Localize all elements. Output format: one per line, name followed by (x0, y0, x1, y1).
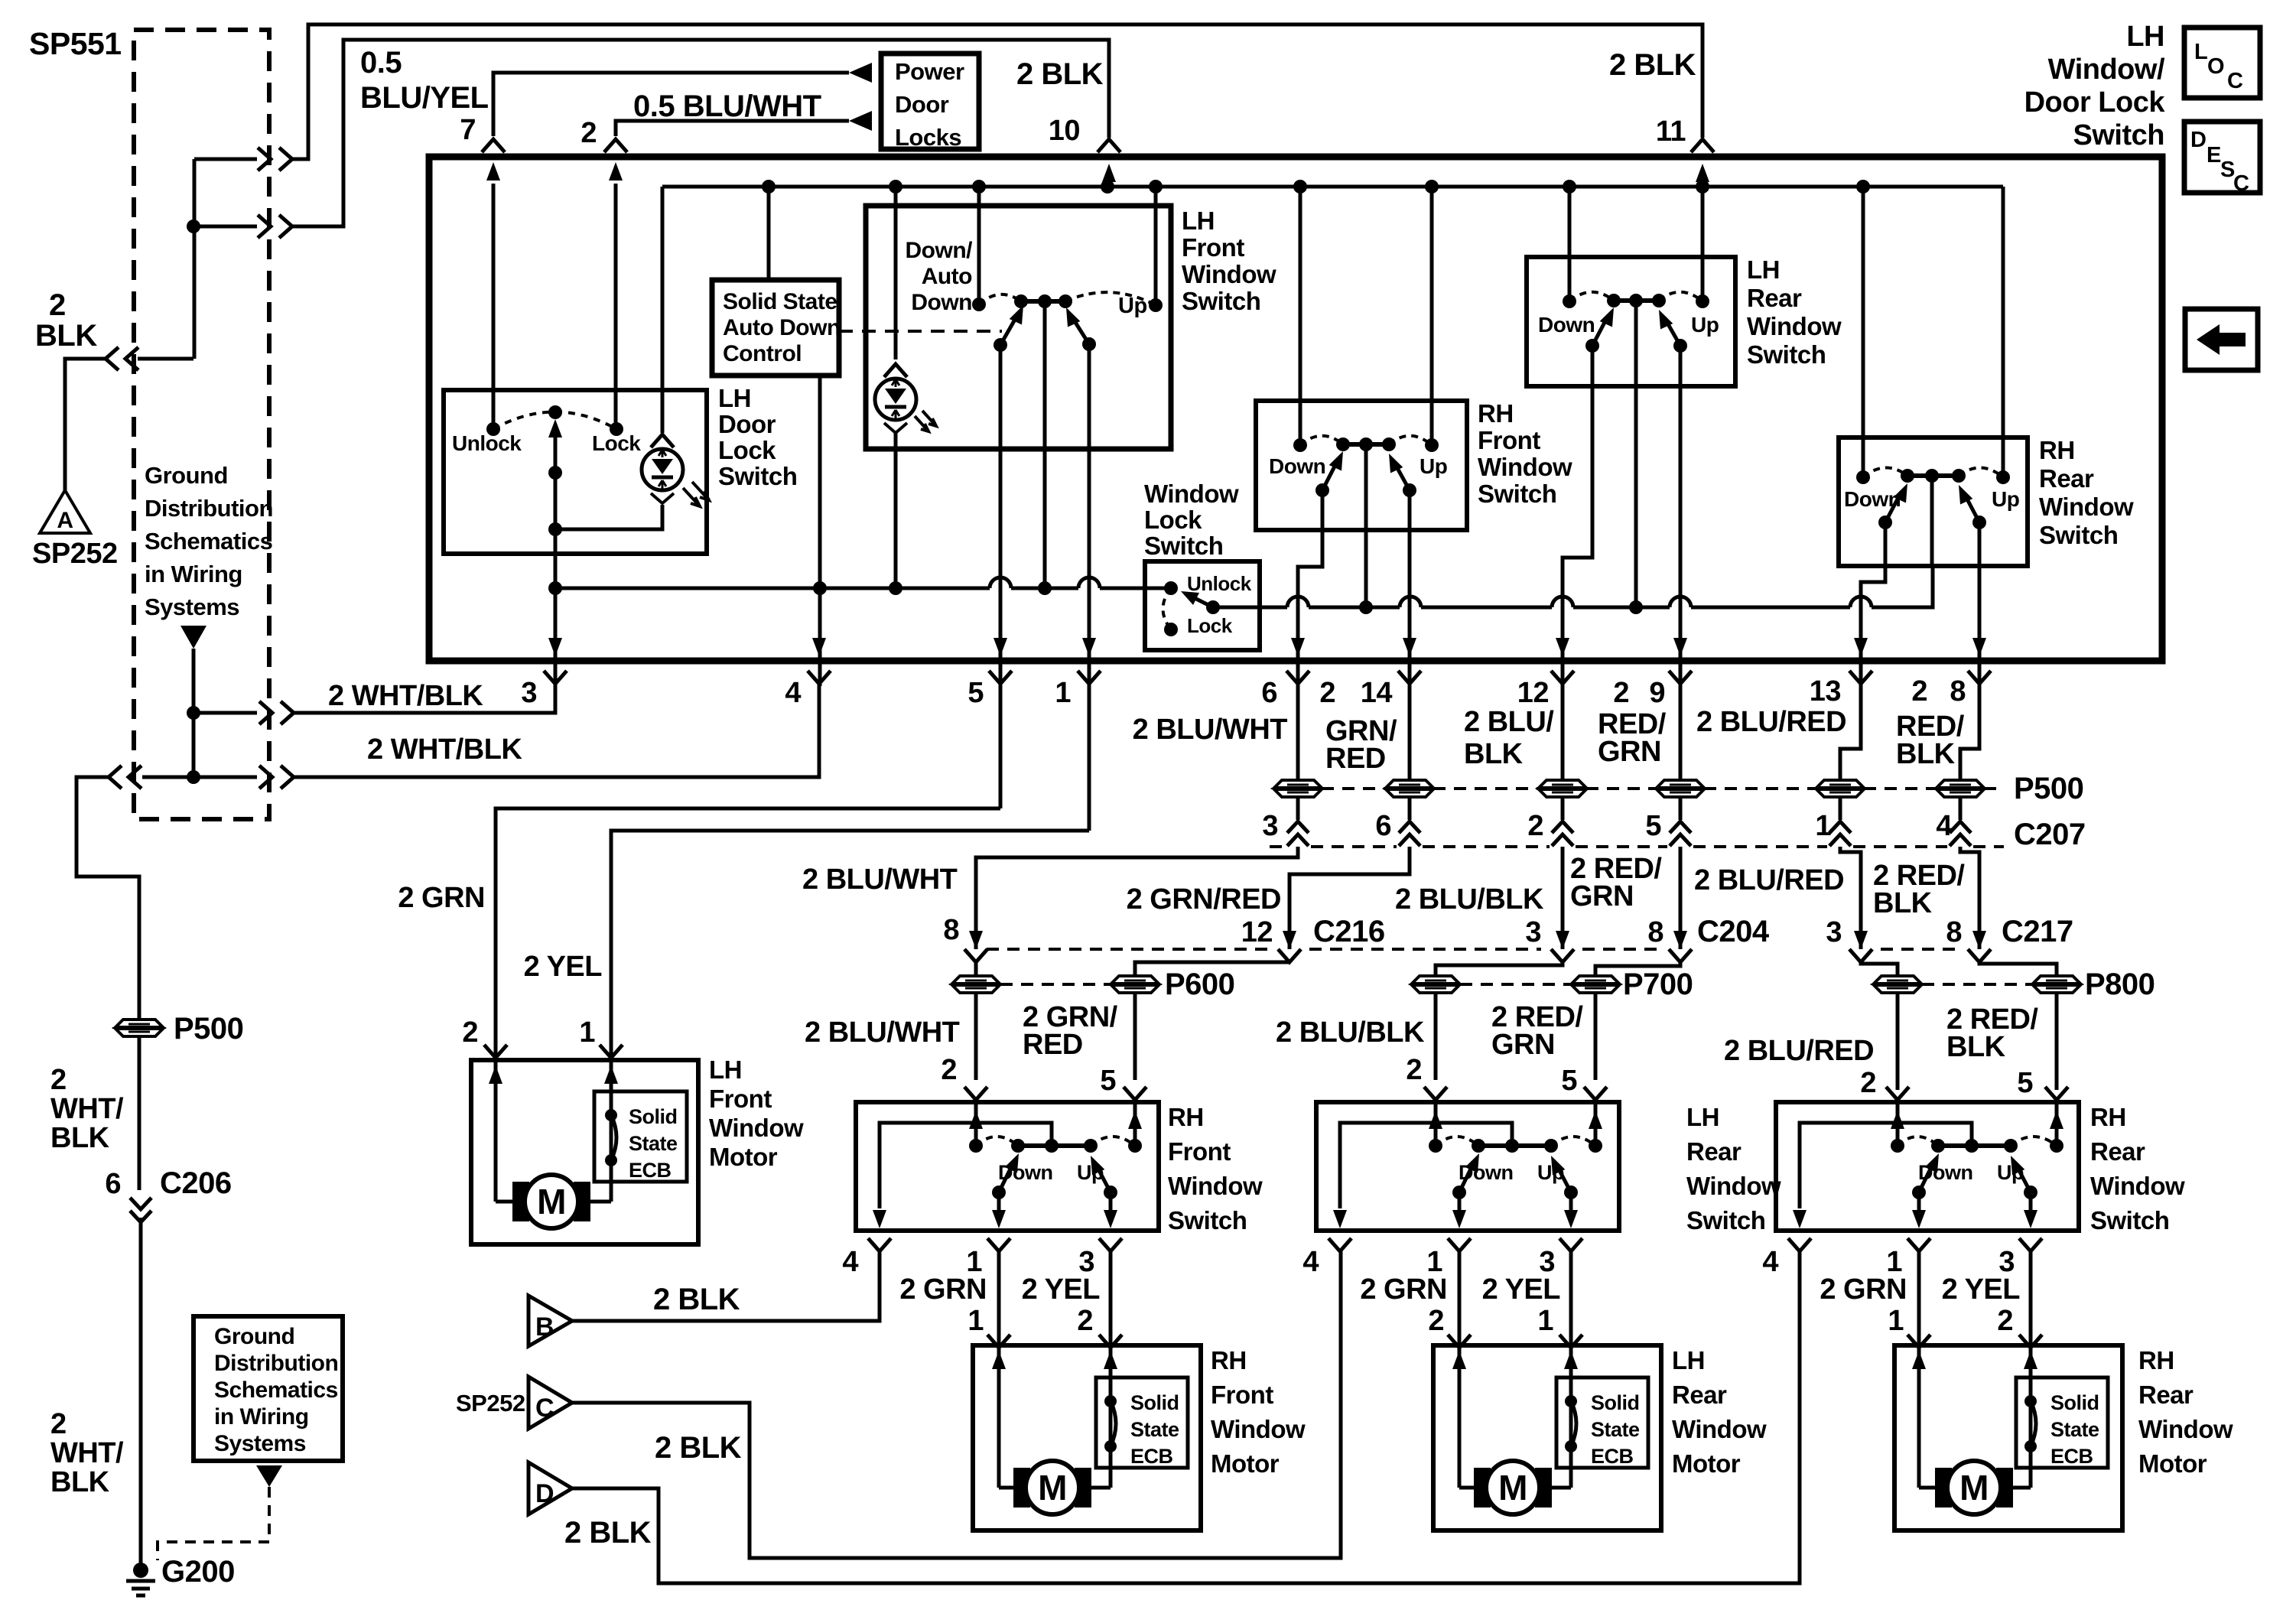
svg-text:2 BLU/BLK: 2 BLU/BLK (1395, 883, 1544, 916)
svg-text:M: M (1498, 1468, 1527, 1508)
dashed arcs rh rear (1863, 467, 1907, 477)
svg-text:Window: Window (1211, 1415, 1306, 1443)
junction dot LED return (548, 522, 562, 536)
junction dot LED wire on lock line (889, 581, 902, 595)
svg-text:2 YEL: 2 YEL (1482, 1273, 1561, 1306)
wire lower left to pin 5 (999, 345, 1003, 684)
lower contact right lh front (1082, 337, 1096, 351)
svg-text:5: 5 (2017, 1067, 2033, 1099)
svg-text:Window: Window (1168, 1172, 1263, 1200)
LH Rear Window Motor internal wires (1458, 1348, 1462, 1488)
svg-text:Rear: Rear (1747, 284, 1802, 312)
svg-text:2: 2 (50, 1064, 67, 1096)
svg-text:Window: Window (1686, 1172, 1781, 1200)
junction dot WHT/BLK row2 (187, 770, 200, 784)
wire rh front center to lock line (1364, 444, 1368, 607)
svg-text:State: State (1130, 1418, 1179, 1441)
svg-text:C216: C216 (1313, 915, 1385, 948)
svg-text:LH: LH (1686, 1103, 1719, 1131)
lever arrow left lh front (1000, 313, 1019, 345)
wire lh front center to lock line (1043, 301, 1047, 588)
svg-text:C: C (535, 1394, 554, 1423)
LH Rear Window Motor ECB box (1556, 1377, 1648, 1468)
svg-text:5: 5 (1100, 1065, 1116, 1097)
svg-text:2 GRN: 2 GRN (398, 882, 485, 914)
contact Up lh rear (1696, 294, 1709, 308)
triangle down feed (180, 626, 207, 649)
pin 11 entry arrow (1701, 184, 1705, 187)
svg-text:Front: Front (1168, 1137, 1231, 1166)
svg-text:SP551: SP551 (29, 26, 122, 61)
box back arrow (2185, 309, 2258, 370)
svg-text:6: 6 (1261, 677, 1277, 709)
pin 7 entry arrow (492, 184, 496, 229)
svg-text:RH: RH (2138, 1346, 2174, 1374)
svg-text:RED: RED (1023, 1029, 1083, 1061)
box LH Rear Window Switch (door) (1316, 1102, 1619, 1231)
svg-text:10: 10 (1049, 115, 1080, 147)
svg-text:GRN: GRN (1598, 736, 1661, 768)
pivot dot (548, 466, 562, 480)
junction dot pin4 wire on lock line (813, 581, 827, 595)
svg-text:Switch: Switch (2039, 521, 2118, 549)
dashed line C207 row (1270, 845, 1285, 848)
svg-text:Solid: Solid (2050, 1391, 2099, 1414)
svg-text:C204: C204 (1697, 915, 1770, 948)
svg-text:2: 2 (49, 288, 66, 322)
RH Rear Window Motor motor (1919, 1486, 1949, 1490)
dashed arc bar to up (1065, 292, 1156, 305)
svg-text:Window: Window (2138, 1415, 2233, 1443)
svg-text:WHT/: WHT/ (50, 1093, 124, 1125)
svg-text:1: 1 (579, 1016, 595, 1049)
svg-text:2 BLU/WHT: 2 BLU/WHT (802, 864, 958, 896)
svg-text:BLU/YEL: BLU/YEL (360, 81, 489, 115)
svg-text:Motor: Motor (709, 1143, 778, 1171)
svg-text:GRN: GRN (1491, 1029, 1555, 1061)
svg-text:Window: Window (1747, 312, 1842, 340)
wire lh rear center to lock line (1634, 301, 1638, 607)
dashed box SP551 (134, 30, 269, 819)
wire C216-8 to P600 lens left (952, 976, 1000, 993)
svg-text:State: State (2050, 1418, 2099, 1441)
switch bar rh rear (1907, 473, 1959, 478)
svg-text:State: State (1591, 1418, 1640, 1441)
dashed arc unlock-lock (493, 412, 616, 430)
svg-text:3: 3 (521, 677, 537, 709)
wire P800 right to RH rear switch pin 5 (2055, 993, 2059, 1090)
wire into unlock contact (1145, 587, 1171, 590)
wire 2 BLK from D to RH rear pin 4 (572, 1251, 1800, 1583)
svg-text:Window: Window (2090, 1172, 2185, 1200)
svg-text:3: 3 (1262, 810, 1278, 842)
junction dot lh rear center (1629, 600, 1643, 614)
wire 2 BLK from C to LH rear pin 4 (572, 1251, 1341, 1558)
svg-text:Down/: Down/ (906, 238, 974, 263)
svg-text:M: M (1959, 1468, 1989, 1508)
wire lower right to pin 1 (1088, 344, 1091, 684)
svg-text:C: C (2227, 69, 2243, 93)
svg-text:Door: Door (718, 410, 776, 438)
door lock LED connector chevrons (651, 434, 674, 447)
wire C216-3 to P700 lens left (1436, 962, 1563, 976)
RH Front Window Motor motor (999, 1486, 1027, 1490)
svg-text:1: 1 (1815, 810, 1831, 842)
dashed arc window lock (1163, 588, 1172, 629)
svg-text:6: 6 (1375, 810, 1391, 842)
dashed arc down to bar (979, 294, 1021, 304)
box Power Door Locks (881, 54, 979, 149)
svg-text:2 BLU/BLK: 2 BLU/BLK (1276, 1016, 1425, 1049)
lock feed line east (1260, 606, 1287, 610)
svg-text:Auto Down: Auto Down (723, 315, 841, 340)
junction dot rh front center (1359, 600, 1373, 614)
wire SP551 vertical (193, 159, 197, 359)
svg-text:Ground: Ground (145, 462, 228, 489)
svg-text:1: 1 (968, 1305, 984, 1337)
RH Rear Window Motor internal wires (1917, 1348, 1921, 1488)
svg-text:D: D (535, 1479, 554, 1508)
svg-text:G200: G200 (161, 1555, 235, 1589)
svg-text:ECB: ECB (1591, 1445, 1634, 1468)
dashed line P700 (1460, 983, 1571, 986)
svg-text:Switch: Switch (1144, 532, 1223, 560)
wire P500 to C206 (138, 1036, 141, 1190)
svg-text:Control: Control (723, 341, 802, 366)
svg-text:2: 2 (1911, 675, 1927, 707)
svg-text:O: O (2207, 54, 2224, 79)
svg-text:Systems: Systems (145, 594, 239, 620)
svg-text:LH: LH (1182, 207, 1215, 235)
svg-text:3: 3 (1826, 916, 1842, 948)
LH Rear Window Switch (door) pin stubs (1328, 1238, 1351, 1251)
LH Rear Window Switch (door) Down contact (1429, 1139, 1442, 1153)
svg-text:5: 5 (1561, 1065, 1577, 1097)
svg-text:1: 1 (1537, 1305, 1553, 1337)
junction dot center lock line (1038, 581, 1052, 595)
svg-text:Lock: Lock (592, 431, 641, 455)
triangle D ground ref (528, 1462, 572, 1514)
contact Unlock window lock (1164, 581, 1178, 595)
wire P800 left to RH rear switch pin 2 (1896, 993, 1900, 1090)
svg-text:Systems: Systems (214, 1431, 306, 1456)
pin 2 connector chevron (604, 139, 627, 152)
wire C207-6 to 2 GRN/RED drop (1289, 847, 1410, 932)
LED light arrows (683, 482, 709, 506)
svg-text:ECB: ECB (2050, 1445, 2093, 1468)
svg-text:2 GRN: 2 GRN (1820, 1273, 1907, 1306)
svg-text:Auto: Auto (922, 264, 972, 289)
svg-text:E: E (2207, 143, 2221, 168)
svg-text:Rear: Rear (1672, 1381, 1727, 1409)
pin 7 connector chevron (482, 139, 505, 152)
wire 2 WHT/BLK row2 left to P500 (142, 776, 194, 779)
svg-text:Solid: Solid (1591, 1391, 1640, 1414)
svg-text:2: 2 (1997, 1305, 2013, 1337)
svg-text:4: 4 (785, 677, 801, 709)
switch bar lh rear (1614, 298, 1659, 303)
triangle C ground ref SP252 (528, 1377, 572, 1429)
LH Rear Window Switch (door) lower contacts and levers (1452, 1186, 1466, 1199)
pin 2 entry arrow (614, 184, 618, 229)
contact Lock window lock (1164, 623, 1178, 636)
svg-text:2 BLU/WHT: 2 BLU/WHT (805, 1016, 960, 1049)
lever arrow window lock (1193, 597, 1213, 607)
svg-text:RH: RH (2039, 436, 2075, 464)
contact Down lh rear (1563, 294, 1576, 308)
svg-text:9: 9 (1649, 677, 1665, 709)
svg-text:RH: RH (1168, 1103, 1204, 1131)
wire SP551 row B to pin 10 riser (194, 225, 257, 229)
svg-text:Switch: Switch (2073, 119, 2164, 151)
svg-text:RED: RED (1325, 743, 1386, 775)
pin 10 entry arrow (1107, 184, 1111, 187)
svg-text:P500: P500 (174, 1012, 243, 1046)
dashed line P600 (1000, 983, 1111, 986)
svg-text:Down: Down (911, 290, 972, 315)
box LH Front Window Switch (866, 206, 1171, 449)
RH Front Window Motor ECB contacts (1104, 1395, 1117, 1407)
svg-text:Switch: Switch (1478, 480, 1556, 508)
RH Front Window Switch (door) inner common link (880, 1123, 1052, 1208)
LH Rear Window Motor motor (1459, 1486, 1488, 1490)
lower contacts rh front (1315, 483, 1329, 497)
svg-text:2: 2 (50, 1408, 67, 1440)
svg-text:in Wiring: in Wiring (145, 561, 242, 587)
svg-text:12: 12 (1517, 677, 1549, 709)
LH Rear Window Switch (door) wires lower contacts to pins (1458, 1192, 1462, 1212)
common contact window lock (1206, 600, 1220, 614)
svg-text:Rear: Rear (2039, 464, 2094, 493)
svg-text:State: State (629, 1132, 678, 1155)
lever arrows rh front (1322, 459, 1338, 490)
svg-text:ECB: ECB (629, 1159, 672, 1182)
LED light arrows lh front (915, 411, 936, 431)
supply bus inside module (662, 185, 2003, 189)
wire C217-8 to P800 lens right (1979, 962, 2057, 976)
dashed auto down control link (839, 330, 1002, 333)
wire bus to door lock LED (661, 187, 665, 433)
svg-text:ECB: ECB (1130, 1445, 1173, 1468)
wire 2 BLK to SP252 A (138, 357, 194, 361)
svg-text:2 BLU/RED: 2 BLU/RED (1696, 706, 1846, 738)
wire 2 WHT/BLK to pin 3 (194, 711, 257, 715)
RH Rear Window Switch (door) inner common link (1800, 1123, 1972, 1208)
wire bus to rh rear Down (1862, 187, 1865, 471)
svg-text:2: 2 (1406, 1054, 1422, 1086)
wire C206 to G200 (139, 1218, 143, 1565)
svg-text:8: 8 (943, 914, 959, 946)
svg-text:2 WHT/BLK: 2 WHT/BLK (328, 680, 483, 712)
RH Front Window Switch (door) wires lower contacts to pins (997, 1192, 1001, 1212)
wire C204-8 to P700 lens right (1595, 962, 1680, 976)
wire bus corner to rh rear Up (2002, 187, 2005, 471)
svg-text:Front: Front (709, 1085, 772, 1113)
svg-text:Switch: Switch (1747, 340, 1826, 369)
svg-text:Lock: Lock (718, 436, 776, 464)
box Ground Distribution Schematics in Wiring Systems (194, 1316, 343, 1461)
lh front LED connector chevrons (884, 364, 907, 377)
svg-text:Solid: Solid (629, 1105, 678, 1128)
junction dot WHT/BLK row1 (187, 706, 200, 720)
box RH Front Window Switch (1256, 401, 1467, 530)
svg-text:2: 2 (581, 117, 597, 149)
box RH Front Window Switch (door) (856, 1102, 1159, 1231)
wire P700 left to LH rear switch pin 2 (1434, 993, 1438, 1080)
svg-text:Rear: Rear (2138, 1381, 2194, 1409)
svg-text:P600: P600 (1165, 968, 1234, 1001)
wire C216-12 to P600 lens right (1135, 962, 1289, 976)
svg-text:Up: Up (1118, 294, 1147, 318)
wire lh front LED down to lock line (894, 433, 898, 588)
wire bus to Down contact (977, 187, 981, 298)
arrow into power door locks lower (849, 111, 872, 131)
svg-text:2 BLU/WHT: 2 BLU/WHT (1133, 714, 1288, 746)
triangle B ground ref (528, 1296, 572, 1346)
svg-text:Motor: Motor (1672, 1449, 1741, 1478)
svg-text:Up: Up (1420, 454, 1447, 478)
RH Front Window Switch (door) dashed arcs (976, 1137, 1018, 1146)
svg-text:Solid: Solid (1130, 1391, 1179, 1414)
lever arrow door lock switch (554, 428, 558, 473)
dashed line P800 (1922, 983, 2033, 986)
C207 pin chevrons and numbers (1287, 821, 1309, 846)
svg-text:Unlock: Unlock (452, 431, 522, 455)
svg-text:2 YEL: 2 YEL (1942, 1273, 2021, 1306)
wire C207-2 to 2 BLU/BLK drop (1561, 847, 1565, 932)
switch bar lh front (1021, 299, 1065, 304)
RH Front Window Motor ECB box (1096, 1377, 1188, 1468)
svg-text:13: 13 (1810, 675, 1841, 707)
RH Front Window Switch (door) switch bar (1018, 1143, 1091, 1148)
svg-text:Power: Power (895, 58, 964, 85)
svg-text:C207: C207 (2014, 818, 2086, 851)
svg-text:2 GRN/RED: 2 GRN/RED (1127, 883, 1281, 916)
triangle A SP252 ground ref (40, 490, 90, 533)
svg-text:Lock: Lock (1187, 614, 1233, 637)
lever arrows lh rear (1592, 315, 1608, 346)
svg-text:Rear: Rear (2090, 1137, 2145, 1166)
svg-text:WHT/: WHT/ (50, 1437, 124, 1469)
svg-text:Lock: Lock (1144, 506, 1202, 534)
svg-text:8: 8 (1647, 916, 1663, 948)
wire pin2 to power door locks (616, 121, 849, 136)
svg-text:BLK: BLK (35, 319, 97, 353)
box LH Door Lock Switch (444, 390, 707, 554)
svg-text:2: 2 (462, 1016, 478, 1049)
wire 2 GRN to LH front motor pin 2 (496, 808, 1000, 1058)
svg-text:2: 2 (941, 1054, 957, 1086)
svg-text:BLK: BLK (1464, 738, 1524, 770)
svg-text:BLK: BLK (50, 1466, 110, 1498)
pin arrows onto module bottom edge (548, 638, 562, 656)
RH Front Window Switch (door) pin2 wire to Down contact (974, 1104, 978, 1140)
svg-text:Schematics: Schematics (145, 528, 272, 555)
svg-text:4: 4 (1302, 1246, 1319, 1278)
wire C207-5 to 2 RED/GRN drop (1679, 847, 1683, 932)
box RH Rear Window Switch (1839, 437, 2028, 566)
svg-text:7: 7 (460, 114, 476, 146)
dashed arcs lh rear (1569, 292, 1614, 301)
svg-text:LH: LH (2126, 21, 2164, 53)
wire rh rear lower-left to pin 13 (1861, 522, 1885, 684)
svg-text:SP252: SP252 (32, 538, 118, 570)
wire RH Front Window Motor pin 2 (1109, 1251, 1113, 1348)
svg-text:1: 1 (1888, 1305, 1904, 1337)
RH Rear Window Switch (door) pin5 wire to Up contact (2055, 1104, 2059, 1140)
wire C207-1 to 2 BLU/RED drop (1840, 847, 1861, 932)
svg-text:0.5 BLU/WHT: 0.5 BLU/WHT (633, 89, 821, 123)
svg-text:RH: RH (1211, 1346, 1247, 1374)
box Solid State Auto Down Control (712, 280, 839, 376)
svg-text:Distribution: Distribution (214, 1351, 338, 1376)
svg-text:Up: Up (1691, 313, 1719, 337)
contact Up rh rear (1996, 470, 2010, 484)
svg-text:Door: Door (895, 91, 949, 118)
svg-text:Front: Front (1478, 426, 1540, 454)
svg-text:Motor: Motor (1211, 1449, 1280, 1478)
RH Front Window Switch (door) lower contacts and levers (992, 1186, 1006, 1199)
LH front motor ECB contacts (605, 1109, 617, 1121)
svg-text:Switch: Switch (1686, 1206, 1765, 1234)
svg-text:2 YEL: 2 YEL (524, 951, 603, 983)
svg-text:B: B (535, 1312, 554, 1342)
dashed link box2 to G200 (158, 1487, 269, 1560)
box DESC (2184, 122, 2260, 193)
svg-text:C206: C206 (160, 1166, 232, 1200)
svg-text:C: C (2233, 171, 2249, 196)
wire pin7 to power door locks (493, 73, 849, 136)
wire bus to lh rear Down (1568, 187, 1572, 295)
wire RH Rear Window Motor pin 2 (2029, 1251, 2033, 1348)
lever arrow right lh front (1071, 315, 1089, 344)
svg-text:L: L (2194, 40, 2207, 64)
svg-text:BLK: BLK (1946, 1031, 2006, 1063)
LH front motor ECB box (594, 1091, 687, 1182)
svg-text:2 GRN: 2 GRN (1360, 1273, 1447, 1306)
svg-text:2 BLU/RED: 2 BLU/RED (1694, 864, 1844, 896)
wire C207-4 to 2 RED/BLK drop (1960, 847, 1979, 932)
connector P500 row lenses (1274, 780, 1322, 797)
junction dot lock line west start (548, 581, 562, 595)
contact Down/Auto Down (972, 298, 986, 311)
dashed line P500 row (1322, 787, 1386, 790)
LH Rear Window Switch (door) pin5 wire to Up contact (1594, 1104, 1598, 1140)
RH Front Window Switch (door) Down contact (969, 1139, 983, 1153)
wire splice vertical lower (192, 649, 196, 777)
svg-text:Door Lock: Door Lock (2024, 86, 2166, 119)
svg-text:12: 12 (1241, 916, 1273, 948)
box RH Rear Window Switch (door) (1776, 1102, 2079, 1231)
pin 10 connector chevron (1098, 139, 1120, 152)
wire rh rear lower-right to pin 8 (1978, 522, 1982, 684)
RH Front Window Switch (door) Up contact (1128, 1139, 1142, 1153)
svg-text:5: 5 (968, 677, 984, 709)
svg-text:Switch: Switch (718, 462, 797, 490)
svg-text:RH: RH (1478, 399, 1514, 428)
pin 11 connector chevron (1691, 139, 1714, 152)
wire bus to solid state box (767, 187, 771, 280)
svg-text:6: 6 (105, 1168, 121, 1200)
svg-text:0.5: 0.5 (360, 46, 402, 80)
svg-text:LH: LH (1747, 255, 1780, 284)
wire 2 YEL to LH front motor pin 1 (611, 831, 1089, 1058)
wire RH Rear Window Motor pin 1 (1917, 1251, 1921, 1348)
wire pin11/bus to lh rear Up (1701, 187, 1705, 295)
LH front motor internal wires (494, 1058, 498, 1202)
svg-text:2: 2 (1527, 810, 1543, 842)
RH Rear Window Switch (door) lower contacts and levers (1912, 1186, 1926, 1199)
